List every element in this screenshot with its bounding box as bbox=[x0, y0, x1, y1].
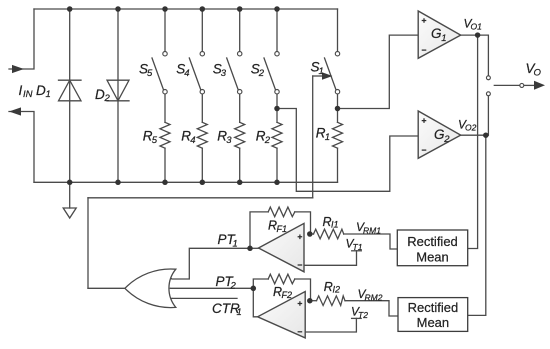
svg-text:3: 3 bbox=[226, 135, 232, 146]
svg-text:R: R bbox=[324, 280, 333, 294]
svg-text:4: 4 bbox=[184, 68, 189, 79]
svg-text:3: 3 bbox=[221, 68, 227, 79]
svg-text:1: 1 bbox=[233, 239, 238, 250]
svg-text:O2: O2 bbox=[465, 122, 477, 132]
svg-text:RM2: RM2 bbox=[365, 293, 383, 303]
svg-text:2: 2 bbox=[230, 281, 237, 292]
svg-text:F2: F2 bbox=[282, 290, 293, 300]
svg-text:1: 1 bbox=[319, 66, 324, 77]
svg-text:I1: I1 bbox=[331, 220, 339, 230]
svg-text:G: G bbox=[434, 127, 445, 142]
svg-text:1: 1 bbox=[46, 89, 51, 100]
svg-text:O1: O1 bbox=[471, 21, 483, 31]
svg-text:2: 2 bbox=[264, 135, 271, 146]
svg-text:Rectified: Rectified bbox=[407, 234, 458, 249]
svg-text:RM1: RM1 bbox=[363, 226, 381, 236]
svg-text:Mean: Mean bbox=[416, 249, 449, 264]
svg-text:Mean: Mean bbox=[417, 315, 450, 330]
svg-text:2: 2 bbox=[258, 68, 265, 79]
svg-text:IN: IN bbox=[23, 89, 33, 100]
svg-text:T1: T1 bbox=[353, 242, 363, 252]
svg-text:F1: F1 bbox=[277, 224, 288, 234]
svg-text:1: 1 bbox=[325, 132, 330, 143]
svg-text:Rectified: Rectified bbox=[408, 300, 459, 315]
svg-text:1: 1 bbox=[237, 307, 242, 318]
svg-text:2: 2 bbox=[443, 134, 450, 145]
svg-text:D: D bbox=[36, 83, 46, 98]
svg-text:G: G bbox=[431, 26, 442, 41]
svg-text:T2: T2 bbox=[358, 310, 368, 320]
svg-text:5: 5 bbox=[147, 68, 153, 79]
svg-text:2: 2 bbox=[104, 93, 111, 104]
svg-text:4: 4 bbox=[190, 135, 195, 146]
svg-text:O: O bbox=[534, 68, 542, 79]
svg-text:D: D bbox=[95, 87, 105, 102]
svg-text:5: 5 bbox=[152, 135, 158, 146]
svg-text:I2: I2 bbox=[333, 285, 341, 295]
svg-text:I: I bbox=[19, 83, 23, 98]
svg-text:1: 1 bbox=[441, 33, 446, 44]
